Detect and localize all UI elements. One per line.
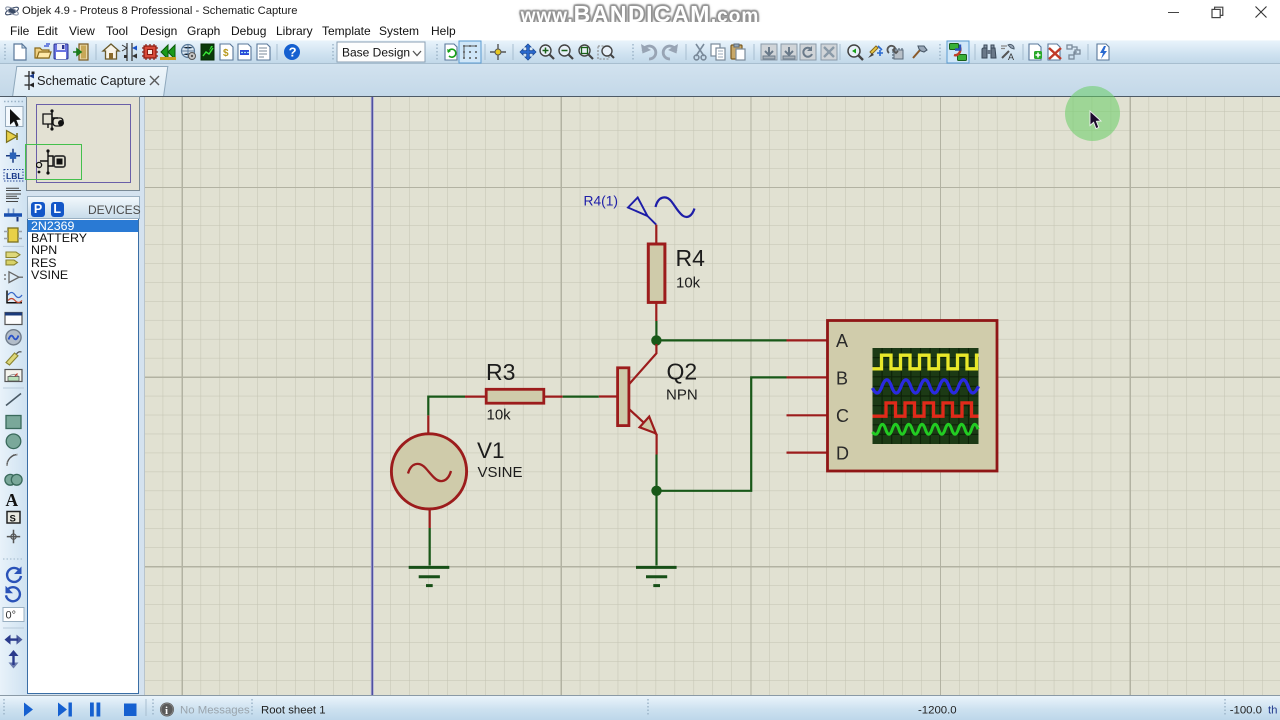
transistor Q2 collector lead bbox=[629, 344, 657, 384]
section separators bbox=[4, 699, 1225, 716]
transistor Q2 emitter lead bbox=[629, 409, 657, 455]
refresh doc bbox=[445, 44, 457, 60]
design explorer lightning bbox=[1097, 44, 1109, 60]
svg-text:-1200.0: -1200.0 bbox=[918, 704, 957, 716]
zoom sheet bbox=[598, 46, 614, 59]
separators bbox=[96, 44, 1088, 60]
svg-text:No Messages: No Messages bbox=[180, 705, 250, 717]
wire label tool bbox=[4, 170, 23, 182]
netlist flow icon (pressed) bbox=[947, 41, 969, 63]
schematic tool icon bbox=[122, 43, 137, 61]
svg-text:A: A bbox=[1008, 52, 1014, 62]
goto sheet bbox=[1067, 45, 1080, 59]
pan cross bbox=[520, 44, 536, 60]
V1 sine symbol bbox=[408, 464, 451, 481]
play button bbox=[24, 703, 33, 717]
bom doc $ bbox=[220, 44, 233, 60]
new sheet bbox=[1029, 44, 1042, 60]
pause button bbox=[90, 703, 94, 717]
svg-text:?: ? bbox=[289, 45, 297, 60]
sheet boundary bbox=[371, 97, 374, 695]
undo bbox=[641, 44, 656, 59]
svg-text:S: S bbox=[10, 514, 16, 525]
pcb chip red bbox=[142, 44, 158, 60]
svg-text:R4(1): R4(1) bbox=[584, 194, 619, 209]
window buttons bbox=[1168, 12, 1179, 13]
tab bar bbox=[0, 64, 1280, 97]
junction dot tool bbox=[6, 149, 20, 163]
zoom in bbox=[540, 45, 554, 59]
stop button bbox=[124, 704, 137, 717]
block rotate bbox=[800, 44, 816, 60]
wire R3 to base bbox=[563, 396, 599, 398]
svg-text:D: D bbox=[836, 443, 849, 463]
wire lower junction to scope B branch bbox=[657, 377, 787, 490]
voltage probe tool bbox=[6, 353, 18, 365]
cursor highlight bbox=[1065, 86, 1120, 141]
svg-text:Base Design: Base Design bbox=[342, 46, 410, 60]
R3 right pin bbox=[544, 396, 563, 398]
pin A stub bbox=[787, 339, 828, 341]
preview glyph 1 bbox=[40, 108, 70, 134]
node emitter junction dot bbox=[651, 486, 661, 496]
2D line tool bbox=[6, 394, 21, 406]
origin crosshair bbox=[490, 44, 506, 60]
devices list bbox=[27, 219, 139, 694]
R3 left pin bbox=[465, 396, 486, 398]
2D arc tool bbox=[7, 455, 18, 467]
notes doc bbox=[257, 44, 270, 60]
import/exit door bbox=[73, 44, 88, 60]
grid toggle (pressed) bbox=[459, 41, 481, 63]
V1 bottom pin bbox=[429, 509, 431, 528]
svg-text:VSINE: VSINE bbox=[478, 464, 523, 481]
wire R4 to node (green) bbox=[655, 321, 657, 340]
blue sine trace bbox=[873, 380, 979, 393]
rotate ccw tool bbox=[6, 587, 20, 601]
yellow square trace bbox=[873, 355, 979, 369]
menu bar bbox=[0, 22, 1280, 40]
make device bbox=[868, 46, 883, 58]
svg-text:10k: 10k bbox=[676, 275, 701, 292]
preview box bbox=[26, 96, 140, 191]
bandicam watermark bbox=[0, 1, 1280, 28]
terminal tool bbox=[6, 252, 20, 258]
chart doc bbox=[201, 44, 214, 60]
globe gear bbox=[182, 45, 196, 60]
active tab bbox=[12, 66, 168, 97]
svg-text:A: A bbox=[836, 331, 848, 351]
subcircuit tool bbox=[8, 228, 18, 242]
source V1 circle bbox=[391, 434, 466, 509]
graph mode tool bbox=[7, 291, 22, 303]
buses tool bbox=[9, 209, 14, 215]
wire R4 bottom pin bbox=[655, 302, 657, 321]
remove sheet bbox=[1048, 44, 1061, 60]
svg-text:th: th bbox=[1268, 704, 1278, 716]
svg-text:10k: 10k bbox=[487, 406, 512, 423]
copy bbox=[711, 44, 725, 60]
ground Q2 bbox=[636, 567, 677, 585]
property tool wrench A bbox=[1001, 44, 1014, 62]
component mode tool bbox=[7, 131, 18, 143]
resistor R3 body bbox=[486, 389, 544, 403]
2D closed path tool bbox=[5, 474, 16, 485]
Base Design dropdown bbox=[337, 42, 425, 62]
green back arrows bbox=[160, 45, 176, 60]
toolbar bbox=[0, 40, 1280, 64]
major vertical grid lines bbox=[145, 97, 1280, 695]
generator tool bbox=[6, 330, 21, 345]
2D symbol tool bbox=[7, 512, 20, 524]
redo bbox=[663, 44, 678, 59]
left panel background bbox=[27, 97, 145, 700]
binoculars find bbox=[982, 45, 996, 58]
node collector junction dot bbox=[651, 335, 661, 345]
step button bbox=[58, 703, 67, 717]
osc doc bbox=[238, 44, 251, 60]
electrical check hammer bbox=[913, 46, 927, 58]
svg-text:LBL: LBL bbox=[6, 171, 23, 181]
flip vertical tool bbox=[9, 650, 19, 656]
svg-text:Q2: Q2 bbox=[667, 359, 698, 385]
text script tool bbox=[6, 188, 21, 201]
green sine trace bbox=[873, 424, 979, 434]
svg-text:NPN: NPN bbox=[666, 387, 698, 404]
separator bbox=[3, 387, 24, 389]
angle display bbox=[3, 608, 24, 622]
probe sine squiggle bbox=[656, 197, 695, 217]
svg-text:-100.0: -100.0 bbox=[1230, 704, 1262, 716]
selection arrow tool (selected) bbox=[6, 107, 24, 127]
open folder bbox=[35, 44, 51, 58]
svg-text:A: A bbox=[6, 490, 19, 510]
scope screen bbox=[873, 348, 979, 444]
group handles (dotted) bbox=[5, 44, 940, 60]
preview glyph 2 bbox=[36, 148, 68, 176]
wire emitter to lower junction bbox=[655, 455, 657, 491]
strip drag handle bbox=[4, 101, 23, 103]
origin marker tool bbox=[7, 530, 20, 544]
block copy bbox=[761, 44, 777, 60]
V1 top pin bbox=[427, 415, 429, 434]
panel/schematic separator bbox=[144, 97, 145, 695]
device pin tool bbox=[4, 275, 6, 279]
voltage probe symbol bbox=[628, 198, 656, 225]
resistor R3 left wire bbox=[428, 397, 465, 416]
pin D stub bbox=[787, 452, 828, 454]
message info icon bbox=[160, 703, 174, 717]
transistor Q2 base bar bbox=[618, 368, 629, 426]
home bbox=[103, 44, 119, 59]
wire R4 top pin bbox=[655, 225, 657, 244]
svg-text:Root sheet 1: Root sheet 1 bbox=[261, 704, 326, 716]
svg-text:i: i bbox=[165, 705, 168, 717]
wire lower junction to ground bbox=[655, 491, 657, 566]
block delete bbox=[821, 44, 837, 60]
resistor R4 bbox=[648, 244, 665, 302]
2D circle tool bbox=[6, 434, 21, 449]
new doc bbox=[14, 44, 26, 60]
zoom area bbox=[579, 45, 593, 59]
save floppy bbox=[54, 44, 68, 59]
title bar bbox=[0, 0, 1280, 22]
separator bbox=[3, 245, 24, 247]
separator dotted bbox=[3, 558, 24, 560]
oscilloscope body bbox=[828, 321, 998, 472]
mouse cursor bbox=[1089, 110, 1103, 131]
virtual instrument tool bbox=[5, 370, 22, 382]
devices header bbox=[27, 196, 140, 219]
flip horizontal tool bbox=[5, 635, 11, 645]
separator bbox=[3, 627, 24, 629]
svg-text:$: $ bbox=[223, 48, 229, 59]
cut bbox=[694, 44, 706, 60]
ground V1 bbox=[409, 567, 450, 585]
svg-text:R3: R3 bbox=[486, 359, 515, 385]
svg-text:V1: V1 bbox=[477, 438, 505, 463]
2D box tool bbox=[6, 416, 21, 429]
base pin stub bbox=[599, 395, 618, 397]
zoom out bbox=[559, 45, 573, 59]
packaging tool bbox=[887, 46, 903, 59]
svg-text:B: B bbox=[836, 368, 848, 388]
block move bbox=[781, 44, 797, 60]
rotate cw tool bbox=[7, 568, 21, 582]
left icon strip bbox=[0, 97, 27, 700]
pin C stub bbox=[787, 414, 828, 416]
proteus app icon bbox=[4, 3, 20, 19]
paste bbox=[731, 44, 745, 60]
red square trace bbox=[873, 403, 979, 416]
wire V1 to ground bbox=[429, 528, 431, 566]
pin B stub bbox=[787, 376, 828, 378]
svg-text:C: C bbox=[836, 406, 849, 426]
svg-text:R4: R4 bbox=[676, 245, 706, 271]
svg-text:0°: 0° bbox=[6, 610, 17, 622]
tape recorder tool bbox=[5, 313, 22, 325]
wire collector node to pin A (green) bbox=[656, 339, 786, 341]
pick parts bbox=[848, 45, 863, 60]
emitter arrow bbox=[640, 417, 656, 434]
status bar bbox=[0, 695, 1280, 720]
help ? bbox=[284, 44, 300, 60]
